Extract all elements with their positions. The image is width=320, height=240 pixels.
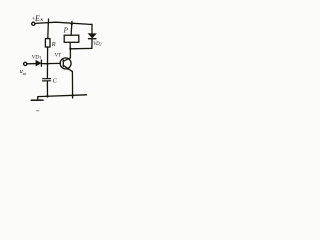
svg-text:R: R [51, 41, 56, 48]
wire node B to base [48, 62, 61, 64]
emitter arrow [67, 67, 70, 70]
terminal +Ek [32, 22, 35, 25]
emitter line [63, 65, 72, 71]
wire VD1 to node B [41, 63, 47, 65]
wire top rail [35, 22, 92, 24]
svg-text:E: E [34, 14, 40, 23]
wire node B down to capacitor [46, 64, 48, 79]
diode VD1 [36, 61, 41, 66]
wire emitter down to bottom rail [71, 71, 73, 98]
relay coil P [64, 35, 79, 42]
wire relay top to rail [70, 24, 73, 36]
svg-text:VD2: VD2 [93, 42, 101, 47]
node B junction dot [46, 63, 48, 65]
ground lower faint dash [37, 110, 39, 112]
collector line [63, 49, 70, 61]
paper background [0, 0, 129, 132]
junction dot at relay tap [71, 23, 73, 25]
ground bar [31, 99, 43, 101]
node A tick (resistor tap on top rail) [47, 19, 49, 23]
capacitor C [43, 78, 51, 80]
svg-text:VD1: VD1 [32, 54, 42, 60]
wire VD2 to collector node [70, 47, 92, 49]
collector node junction dot [69, 48, 71, 50]
ground stub [37, 97, 39, 101]
junction dot capacitor / rail [46, 95, 48, 97]
junction tick at relay tap [71, 21, 73, 23]
resistor R [45, 39, 50, 47]
base bar [62, 60, 64, 67]
bottom rail [38, 95, 87, 97]
wire capacitor down to bottom rail [46, 81, 48, 97]
diode VD2 [89, 34, 96, 38]
wire input to diode VD1 [27, 63, 36, 65]
wire resistor to node B [47, 47, 49, 64]
input terminal [24, 62, 27, 65]
wire node A down to resistor [47, 23, 50, 39]
wire collector node to relay coil [69, 42, 71, 48]
svg-text:Р: Р [63, 26, 69, 34]
junction dot emitter / rail [71, 94, 73, 96]
transistor VT [60, 58, 71, 69]
wire top-right corner down to VD2 [90, 24, 93, 33]
wire VD2 cathode down [91, 39, 93, 49]
